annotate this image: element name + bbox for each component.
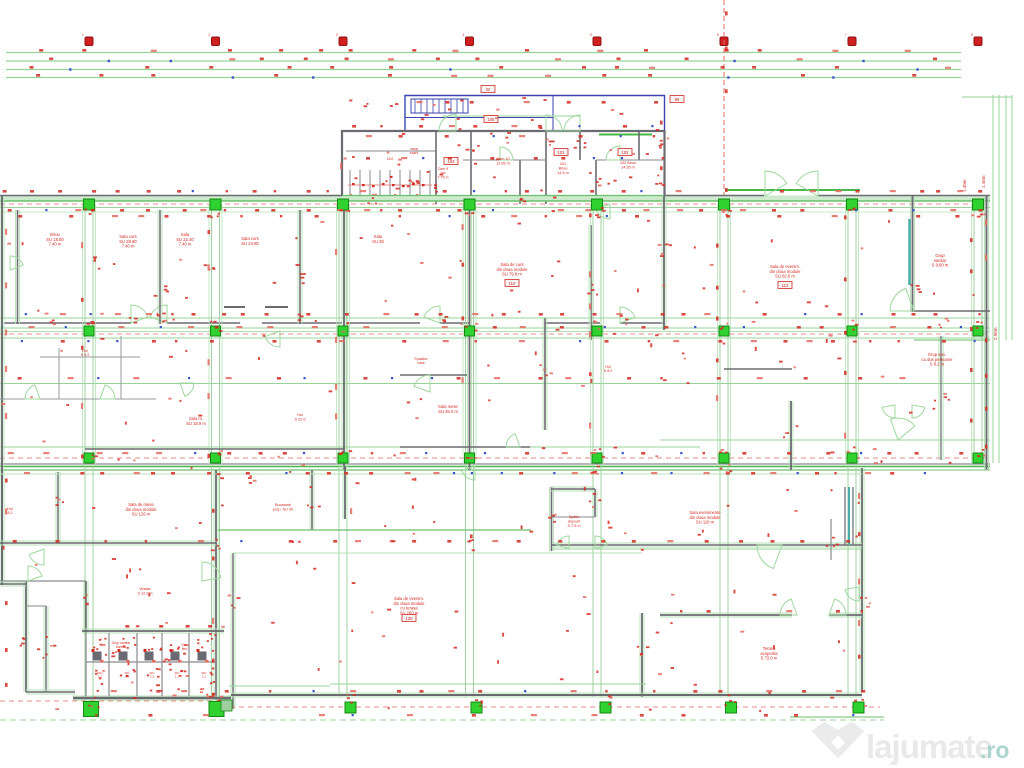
boxed label bbox=[670, 96, 684, 103]
wall lower wing bbox=[343, 466, 347, 519]
room label bbox=[372, 234, 384, 244]
door arc lw4 bbox=[557, 536, 569, 549]
column bbox=[726, 702, 737, 713]
svg-text:Sala cursSU 24.80: Sala cursSU 24.80 bbox=[241, 236, 259, 246]
room label bbox=[497, 262, 529, 277]
svg-text:Bucatarieprep. SU 30: Bucatarieprep. SU 30 bbox=[273, 503, 293, 511]
wall lower wing bbox=[82, 629, 224, 633]
column bbox=[84, 702, 99, 717]
wall lower wing bbox=[0, 582, 26, 586]
room label bbox=[760, 646, 778, 661]
svg-text:casascarii: casascarii bbox=[410, 147, 419, 155]
column bbox=[84, 453, 94, 463]
door arc big room bbox=[596, 204, 610, 219]
column bbox=[973, 199, 984, 210]
axis dashed vertical bbox=[723, 0, 725, 197]
door arc lw7 bbox=[780, 599, 797, 615]
column bbox=[600, 702, 611, 713]
wall upper wing bbox=[0, 196, 4, 470]
room label bbox=[567, 515, 581, 528]
door arc lw12 bbox=[462, 466, 475, 480]
door arc left5 bbox=[265, 331, 280, 347]
elevator shaft bbox=[831, 487, 853, 560]
boxed label bbox=[554, 149, 568, 156]
svg-text:1.46m: 1.46m bbox=[981, 175, 986, 188]
lower stair flight bbox=[346, 131, 436, 204]
room label bbox=[414, 357, 428, 365]
protrusion room walls bbox=[463, 131, 665, 204]
door arc lw5 bbox=[595, 536, 607, 549]
column axis wall lines bbox=[83, 204, 985, 697]
door arc lw9 bbox=[845, 587, 859, 601]
door arc stair bbox=[439, 114, 456, 131]
door arc hall left bbox=[546, 115, 562, 131]
wall lower wing bbox=[231, 693, 862, 697]
room label bbox=[137, 587, 152, 595]
toilet divider walls bbox=[0, 311, 990, 449]
door arc bbox=[424, 306, 440, 323]
wall upper wing bbox=[985, 196, 989, 470]
svg-text:Cam 1012.85 m: Cam 1012.85 m bbox=[496, 157, 510, 165]
column bbox=[84, 199, 95, 210]
column bbox=[338, 199, 349, 210]
wall lower wing bbox=[0, 541, 216, 545]
room label bbox=[770, 264, 802, 279]
svg-text:5: 5 bbox=[590, 33, 592, 37]
wall lower wing bbox=[26, 690, 75, 694]
column bbox=[465, 453, 475, 463]
column bbox=[592, 326, 602, 336]
axis C dashed bbox=[0, 457, 990, 459]
column bbox=[592, 453, 602, 463]
lower wing horizontal walls bbox=[0, 470, 990, 700]
column bbox=[719, 326, 729, 336]
room label bbox=[295, 413, 306, 421]
wall lower wing bbox=[84, 581, 88, 633]
door arc mid2 bbox=[506, 434, 520, 447]
svg-text:101: 101 bbox=[558, 150, 566, 155]
room label bbox=[125, 671, 131, 679]
protrusion navy outline bbox=[405, 96, 665, 132]
small room walls left bbox=[59, 336, 121, 399]
column bbox=[471, 702, 482, 713]
entrance door arcs top wall bbox=[765, 171, 818, 196]
wall lower wing bbox=[640, 613, 644, 697]
room label bbox=[922, 352, 954, 367]
room label bbox=[181, 643, 189, 651]
toilet stalls bbox=[86, 633, 216, 696]
door arc mid bbox=[414, 375, 430, 392]
column bbox=[464, 199, 475, 210]
wall lower wing bbox=[0, 470, 4, 585]
room label bbox=[150, 671, 156, 679]
wall upper wing bbox=[158, 210, 162, 324]
column bbox=[719, 453, 729, 463]
wall lower wing bbox=[56, 472, 60, 543]
dimension tick marks top band bbox=[30, 49, 952, 79]
axis bubbles row bbox=[82, 33, 982, 46]
right edge dimension lines bbox=[962, 95, 1012, 463]
boxed label bbox=[484, 116, 498, 123]
wall lower wing bbox=[860, 468, 864, 692]
column bbox=[345, 702, 356, 713]
lower wing vertical walls bbox=[0, 466, 864, 709]
boxed label bbox=[444, 158, 458, 165]
room label bbox=[387, 157, 394, 161]
svg-text:105: 105 bbox=[488, 117, 496, 122]
column bbox=[338, 326, 348, 336]
door arc lw10 bbox=[882, 405, 895, 418]
door arc bbox=[150, 305, 167, 323]
stall dense marks bbox=[93, 637, 215, 692]
svg-text:SpatiudepozitS 7.5 m: SpatiudepozitS 7.5 m bbox=[567, 515, 581, 528]
room label bbox=[604, 365, 612, 373]
svg-text:112: 112 bbox=[782, 283, 789, 288]
svg-text:Sala meseSU 45.0 m: Sala meseSU 45.0 m bbox=[438, 404, 458, 414]
wall upper wing bbox=[543, 318, 547, 430]
svg-text:1: 1 bbox=[82, 33, 84, 37]
wall lower wing bbox=[552, 543, 862, 547]
wall lower wing bbox=[310, 470, 314, 530]
column bbox=[847, 199, 858, 210]
teal wall bbox=[908, 219, 911, 285]
door arc lw1 bbox=[29, 549, 44, 565]
bottom dashed guide bbox=[0, 701, 884, 720]
wall upper wing bbox=[662, 196, 666, 330]
svg-text:120: 120 bbox=[406, 616, 414, 621]
svg-text:110: 110 bbox=[509, 281, 516, 286]
room label bbox=[175, 671, 181, 679]
svg-text:2.96m: 2.96m bbox=[993, 327, 998, 340]
boxed label bbox=[618, 149, 632, 156]
svg-text:3: 3 bbox=[336, 33, 338, 37]
watermark logo bbox=[813, 723, 863, 757]
svg-text:VestiarS 12.2 m: VestiarS 12.2 m bbox=[137, 587, 152, 595]
svg-text:7: 7 bbox=[845, 33, 847, 37]
door arc lw11 bbox=[912, 405, 925, 418]
door arc hall right bbox=[564, 115, 580, 131]
door arc lw8 bbox=[829, 599, 846, 615]
door arc left4 bbox=[180, 383, 194, 396]
room label bbox=[438, 404, 458, 414]
svg-text:lajumate: lajumate bbox=[866, 728, 993, 765]
svg-text:18.0: 18.0 bbox=[387, 157, 394, 161]
wall lower wing bbox=[660, 613, 792, 617]
svg-text:102 Birou14.35 m: 102 Birou14.35 m bbox=[620, 161, 636, 169]
top dimension lines bbox=[6, 53, 961, 78]
door arc bbox=[620, 307, 635, 323]
lower corridor line bbox=[0, 446, 700, 448]
svg-text:2: 2 bbox=[209, 33, 211, 37]
column bbox=[211, 326, 221, 336]
wall lower wing bbox=[44, 606, 48, 692]
column bbox=[84, 326, 94, 336]
svg-text:4: 4 bbox=[463, 33, 465, 37]
room label bbox=[241, 236, 259, 246]
room label bbox=[273, 503, 293, 511]
room label bbox=[620, 161, 636, 169]
protrusion inner green sill bbox=[442, 116, 860, 190]
wall lower wing bbox=[24, 581, 28, 692]
door arc bbox=[796, 171, 818, 196]
door arc lw6 bbox=[757, 545, 782, 569]
column bbox=[211, 453, 221, 463]
wall lower wing bbox=[231, 553, 235, 709]
wall upper wing bbox=[939, 336, 943, 460]
right edge rotated dimension text bbox=[962, 175, 998, 340]
svg-text:.ro: .ro bbox=[980, 737, 1009, 763]
svg-text:99: 99 bbox=[675, 97, 680, 102]
wall lower wing bbox=[214, 470, 218, 700]
wall lower wing bbox=[593, 489, 597, 517]
door arc left3 bbox=[100, 385, 115, 399]
column bbox=[973, 326, 983, 336]
svg-text:W: W bbox=[486, 87, 490, 92]
room label bbox=[81, 349, 89, 357]
column bbox=[973, 453, 983, 463]
svg-text:6: 6 bbox=[717, 33, 719, 37]
room label bbox=[932, 253, 949, 268]
navy stair box bbox=[405, 96, 553, 132]
room label bbox=[689, 510, 721, 525]
wall lower wing bbox=[73, 696, 231, 700]
room label bbox=[176, 232, 194, 247]
room label bbox=[112, 641, 132, 649]
wall upper wing bbox=[589, 225, 593, 340]
axis A dashed bbox=[0, 203, 990, 205]
svg-text:102: 102 bbox=[622, 150, 630, 155]
wall lower wing bbox=[550, 487, 554, 551]
room label bbox=[7, 507, 13, 515]
door arc left1 bbox=[10, 256, 23, 270]
column bbox=[847, 326, 857, 336]
room label bbox=[394, 596, 426, 615]
wall upper wing bbox=[468, 204, 472, 470]
boxed label bbox=[402, 615, 416, 622]
room label bbox=[119, 234, 137, 249]
wall upper wing bbox=[342, 204, 346, 470]
boxed label bbox=[481, 86, 495, 93]
wall upper wing bbox=[298, 210, 302, 324]
column bbox=[465, 326, 475, 336]
column bbox=[338, 453, 348, 463]
svg-text:104: 104 bbox=[448, 159, 456, 164]
room label bbox=[557, 162, 569, 175]
room label bbox=[438, 167, 449, 179]
door arc office2 bbox=[500, 147, 513, 160]
column bbox=[209, 702, 224, 717]
door arc toilet bbox=[890, 288, 914, 311]
wall upper wing bbox=[789, 401, 793, 470]
protrusion outer wall bbox=[342, 131, 665, 204]
column bbox=[592, 199, 603, 210]
room label bbox=[496, 157, 510, 165]
column bbox=[847, 453, 857, 463]
door arc bbox=[765, 171, 787, 196]
upper wing vertical walls bbox=[0, 196, 989, 470]
wall lower wing bbox=[551, 487, 595, 491]
axis B dashed bbox=[0, 333, 990, 335]
wall upper wing bbox=[911, 196, 915, 312]
boxed label bbox=[778, 282, 792, 289]
corridor line bbox=[0, 383, 990, 385]
corridor door arcs row1 bbox=[131, 305, 635, 323]
room label bbox=[98, 671, 104, 679]
door arc left2 bbox=[25, 385, 40, 399]
svg-text:8: 8 bbox=[971, 33, 973, 37]
room label bbox=[186, 416, 206, 426]
room label bbox=[126, 502, 158, 517]
svg-text:Hol8.2: Hol8.2 bbox=[7, 507, 13, 515]
boxed label bbox=[505, 280, 519, 287]
room label bbox=[410, 147, 419, 155]
column bbox=[853, 702, 864, 713]
axis D dashed bbox=[230, 706, 880, 708]
column bbox=[210, 199, 221, 210]
room label bbox=[101, 637, 103, 641]
room label bbox=[202, 671, 208, 679]
corridor wall row1 bbox=[4, 307, 664, 323]
wall upper wing bbox=[16, 210, 20, 324]
door arc right bbox=[891, 418, 915, 440]
door arc bbox=[131, 305, 148, 323]
room label bbox=[46, 232, 64, 247]
mid band walls bbox=[0, 318, 990, 338]
wing divider band bbox=[0, 464, 990, 470]
door arc lw2 bbox=[28, 566, 42, 581]
wall lower wing bbox=[829, 613, 862, 617]
door arc lw3 bbox=[202, 562, 221, 581]
column bbox=[719, 199, 730, 210]
upper wing top wall band bbox=[0, 196, 990, 213]
door arc office bbox=[606, 146, 620, 160]
